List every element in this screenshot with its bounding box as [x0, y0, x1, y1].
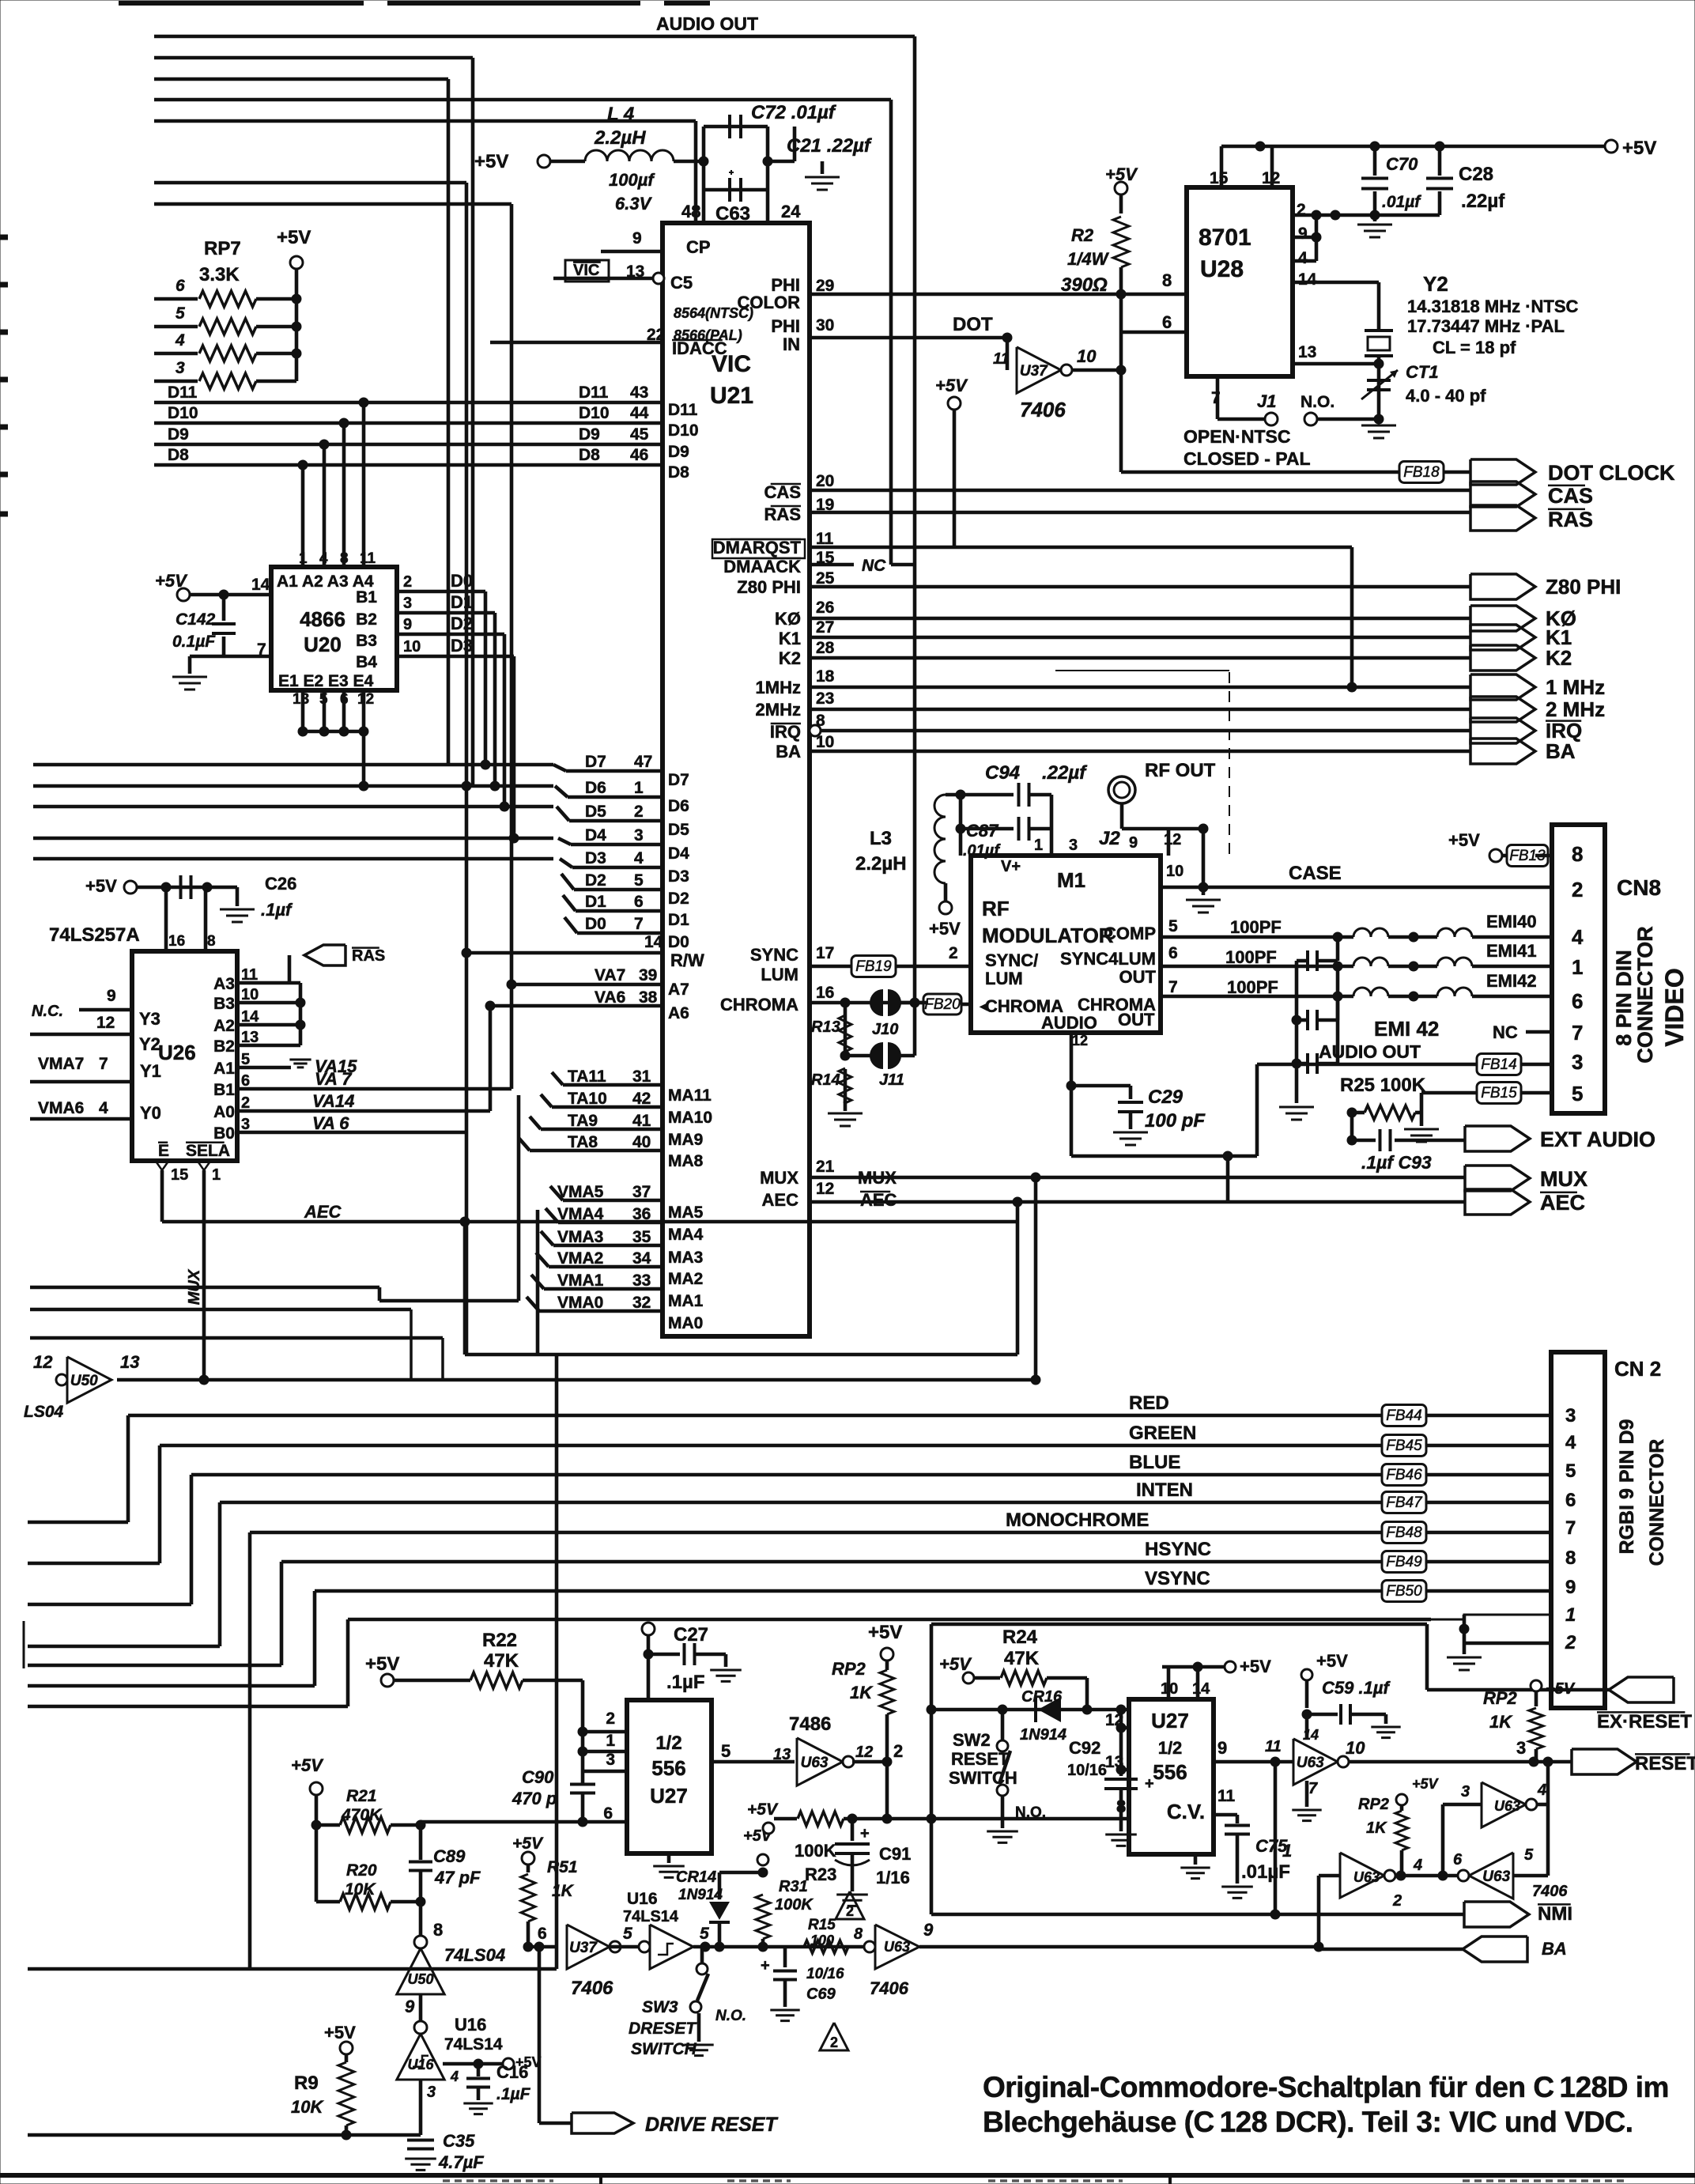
svg-text:9: 9 [107, 987, 116, 1005]
svg-text:2MHz: 2MHz [756, 700, 801, 720]
svg-text:R31: R31 [779, 1878, 808, 1895]
svg-text:VMA0: VMA0 [557, 1294, 603, 1312]
svg-text:C27: C27 [674, 1624, 708, 1646]
svg-text:C89: C89 [433, 1846, 466, 1866]
svg-text:FB18: FB18 [1403, 464, 1440, 481]
svg-text:7406: 7406 [1532, 1883, 1568, 1900]
svg-text:R21: R21 [346, 1787, 377, 1805]
svg-text:FB46: FB46 [1386, 1467, 1422, 1483]
svg-text:4: 4 [1298, 249, 1308, 267]
svg-text:1/16: 1/16 [876, 1868, 910, 1887]
svg-text:D10: D10 [668, 421, 699, 440]
svg-text:8 PIN DIN: 8 PIN DIN [1612, 950, 1636, 1046]
svg-text:MA8: MA8 [668, 1152, 704, 1170]
svg-text:AEC: AEC [1540, 1191, 1585, 1215]
svg-text:D7: D7 [585, 753, 606, 771]
svg-text:R20: R20 [346, 1861, 377, 1880]
svg-text:4: 4 [99, 1099, 108, 1117]
svg-text:21: 21 [816, 1158, 835, 1176]
svg-text:.1µF: .1µF [666, 1672, 705, 1693]
svg-text:29: 29 [816, 277, 834, 295]
svg-text:A2: A2 [213, 1017, 235, 1035]
svg-text:7: 7 [1565, 1517, 1576, 1539]
svg-text:9: 9 [405, 1997, 415, 2016]
svg-text:MUX: MUX [760, 1168, 798, 1188]
svg-text:9: 9 [1565, 1577, 1576, 1598]
svg-text:2: 2 [403, 573, 412, 591]
svg-text:1/2: 1/2 [1158, 1738, 1183, 1758]
svg-text:.22µf: .22µf [1042, 762, 1087, 784]
svg-text:Y3: Y3 [139, 1009, 160, 1029]
svg-text:6: 6 [176, 277, 185, 295]
svg-text:2: 2 [1565, 1632, 1576, 1653]
svg-text:C35: C35 [443, 2131, 475, 2151]
svg-text:100K: 100K [795, 1841, 836, 1861]
svg-text:FB45: FB45 [1386, 1438, 1422, 1454]
svg-text:AEC: AEC [762, 1190, 799, 1210]
svg-text:11: 11 [993, 350, 1010, 368]
svg-text:AEC: AEC [304, 1202, 342, 1222]
svg-text:V+: V+ [1001, 858, 1021, 875]
svg-text:14.31818 MHz ·NTSC: 14.31818 MHz ·NTSC [1407, 297, 1579, 316]
svg-text:13: 13 [773, 1746, 791, 1763]
svg-text:DMAACK: DMAACK [723, 557, 801, 576]
svg-text:3: 3 [1516, 1738, 1526, 1758]
svg-text:3: 3 [403, 595, 412, 612]
svg-text:1K: 1K [552, 1882, 575, 1900]
svg-text:10: 10 [1166, 863, 1183, 880]
svg-text:1: 1 [212, 1166, 221, 1184]
svg-text:100PF: 100PF [1225, 947, 1277, 967]
svg-text:MUX: MUX [1540, 1167, 1587, 1191]
svg-text:28: 28 [816, 639, 835, 657]
svg-text:RAS: RAS [764, 504, 801, 524]
svg-text:RGBI 9 PIN D9: RGBI 9 PIN D9 [1616, 1419, 1638, 1555]
svg-text:J1: J1 [1257, 391, 1276, 411]
svg-text:VIDEO: VIDEO [1660, 968, 1689, 1047]
svg-text:3: 3 [1069, 837, 1078, 854]
svg-text:VMA1: VMA1 [557, 1271, 604, 1290]
svg-text:+5V: +5V [868, 1622, 902, 1643]
svg-text:12: 12 [33, 1352, 53, 1372]
svg-text:DOT: DOT [953, 314, 993, 335]
svg-text:FB47: FB47 [1386, 1494, 1423, 1511]
svg-text:3: 3 [634, 826, 644, 845]
svg-text:KØ: KØ [775, 609, 801, 629]
svg-text:26: 26 [816, 599, 834, 617]
svg-text:R23: R23 [805, 1865, 836, 1884]
svg-text:7486: 7486 [789, 1714, 831, 1735]
svg-text:D3: D3 [585, 849, 606, 867]
svg-text:2 MHz: 2 MHz [1546, 697, 1605, 721]
svg-text:38: 38 [639, 988, 658, 1007]
svg-text:D10: D10 [168, 404, 198, 422]
svg-text:SYNC: SYNC [750, 945, 798, 965]
svg-text:MONOCHROME: MONOCHROME [1006, 1510, 1149, 1531]
svg-text:D3: D3 [451, 636, 473, 656]
svg-text:10/16: 10/16 [806, 1966, 844, 1982]
svg-text:1: 1 [1565, 1604, 1576, 1626]
svg-text:U20: U20 [304, 633, 342, 656]
svg-text:C29: C29 [1148, 1086, 1183, 1108]
svg-text:U21: U21 [710, 383, 753, 409]
svg-text:100PF: 100PF [1227, 977, 1278, 997]
svg-text:U16: U16 [455, 2015, 486, 2035]
svg-text:+5V: +5V [929, 919, 961, 939]
svg-text:4: 4 [319, 550, 328, 567]
svg-text:EMI41: EMI41 [1486, 941, 1537, 961]
svg-text:4: 4 [450, 2069, 459, 2084]
svg-text:R9: R9 [294, 2073, 319, 2094]
svg-text:RAS: RAS [352, 947, 385, 965]
svg-text:OPEN·NTSC: OPEN·NTSC [1183, 426, 1290, 447]
svg-text:DRIVE RESET: DRIVE RESET [645, 2114, 779, 2136]
svg-text:FB19: FB19 [855, 958, 892, 975]
svg-text:556: 556 [651, 1756, 685, 1780]
svg-text:RF: RF [982, 897, 1010, 920]
svg-text:.1µF: .1µF [496, 2085, 531, 2103]
svg-text:B3: B3 [356, 632, 377, 650]
svg-text:FB14: FB14 [1481, 1056, 1516, 1073]
svg-text:SW3: SW3 [642, 1998, 678, 2016]
svg-text:CHROMA: CHROMA [720, 995, 798, 1015]
svg-text:2: 2 [1392, 1892, 1402, 1910]
svg-text:12: 12 [96, 1014, 115, 1032]
svg-text:2.2µH: 2.2µH [594, 127, 646, 149]
svg-text:TA8: TA8 [568, 1133, 598, 1151]
svg-text:R/W: R/W [670, 950, 704, 970]
svg-text:4866: 4866 [300, 607, 345, 631]
svg-text:Y0: Y0 [140, 1103, 161, 1123]
svg-text:11: 11 [1265, 1738, 1282, 1755]
svg-text:25: 25 [816, 569, 835, 588]
svg-text:3.3K: 3.3K [199, 264, 240, 285]
svg-text:C5: C5 [670, 273, 693, 293]
svg-text:U27: U27 [1151, 1709, 1189, 1732]
svg-text:U37: U37 [1020, 363, 1048, 380]
svg-text:6: 6 [1162, 312, 1172, 332]
svg-text:N.C.: N.C. [32, 1003, 63, 1020]
svg-text:470K: 470K [341, 1806, 383, 1824]
svg-text:14: 14 [1298, 270, 1317, 289]
svg-text:A7: A7 [668, 981, 689, 999]
svg-text:14: 14 [1192, 1680, 1210, 1698]
svg-text:MA4: MA4 [668, 1226, 704, 1244]
svg-text:U26: U26 [158, 1041, 196, 1064]
svg-text:5: 5 [1565, 1460, 1576, 1482]
svg-text:+5V: +5V [1546, 1680, 1576, 1698]
svg-text:D11: D11 [579, 384, 609, 402]
svg-text:12: 12 [816, 1180, 834, 1198]
svg-text:Blechgehäuse (C 128 DCR). Teil: Blechgehäuse (C 128 DCR). Teil 3: VIC un… [983, 2106, 1633, 2138]
svg-text:+5V: +5V [155, 571, 188, 591]
svg-text:9: 9 [403, 616, 412, 633]
svg-text:U50: U50 [70, 1373, 98, 1389]
svg-text:U16: U16 [407, 2057, 434, 2073]
svg-text:3: 3 [1461, 1783, 1470, 1800]
svg-text:VA 7: VA 7 [315, 1069, 353, 1089]
svg-text:46: 46 [630, 446, 648, 464]
svg-text:8: 8 [1116, 1797, 1126, 1816]
svg-text:HSYNC: HSYNC [1145, 1539, 1211, 1560]
svg-text:D7: D7 [668, 771, 689, 789]
svg-text:13: 13 [293, 691, 309, 708]
svg-text:L3: L3 [870, 828, 892, 849]
svg-text:FB50: FB50 [1386, 1583, 1422, 1600]
svg-text:A1: A1 [213, 1060, 235, 1078]
svg-text:MODULATOR: MODULATOR [982, 924, 1114, 947]
svg-text:8: 8 [433, 1920, 443, 1940]
svg-text:BA: BA [1542, 1939, 1567, 1959]
svg-text:27: 27 [816, 618, 834, 637]
svg-text:.01µF: .01µF [1241, 1861, 1290, 1883]
svg-text:R22: R22 [482, 1630, 517, 1651]
svg-text:+5V: +5V [85, 876, 117, 896]
svg-text:SWITCH: SWITCH [631, 2040, 697, 2058]
svg-text:R24: R24 [1002, 1627, 1038, 1648]
svg-text:TA9: TA9 [568, 1112, 598, 1130]
svg-text:C16: C16 [496, 2062, 528, 2082]
svg-text:VMA7: VMA7 [38, 1055, 84, 1073]
svg-text:1K: 1K [850, 1683, 874, 1702]
svg-text:MA5: MA5 [668, 1203, 704, 1222]
svg-text:470 p: 470 p [512, 1789, 557, 1808]
svg-text:U63: U63 [1482, 1868, 1510, 1885]
svg-text:15: 15 [171, 1166, 188, 1184]
svg-text:11: 11 [360, 550, 376, 567]
svg-text:AEC: AEC [860, 1190, 897, 1210]
svg-text:CONNECTOR: CONNECTOR [1633, 926, 1657, 1064]
svg-text:N.O.: N.O. [715, 2008, 746, 2024]
svg-text:47K: 47K [1004, 1648, 1040, 1669]
svg-text:L 4: L 4 [607, 104, 634, 125]
svg-text:5: 5 [623, 1925, 632, 1943]
svg-text:J2: J2 [1099, 828, 1120, 849]
svg-text:13: 13 [120, 1352, 139, 1372]
svg-text:1: 1 [1034, 837, 1043, 854]
svg-text:6: 6 [1565, 1490, 1576, 1511]
svg-text:74LS14: 74LS14 [623, 1908, 679, 1925]
svg-text:C26: C26 [265, 874, 296, 894]
svg-text:+5V: +5V [935, 376, 968, 395]
svg-text:BA: BA [776, 742, 801, 761]
svg-text:D4: D4 [668, 845, 689, 863]
svg-text:10K: 10K [291, 2097, 324, 2117]
svg-text:C90: C90 [522, 1767, 554, 1787]
svg-text:+5V: +5V [291, 1755, 324, 1775]
svg-text:2: 2 [634, 803, 644, 821]
svg-text:R25 100K: R25 100K [1340, 1075, 1426, 1096]
svg-text:U37: U37 [569, 1940, 598, 1956]
svg-text:10: 10 [1077, 346, 1097, 366]
svg-text:7: 7 [1168, 978, 1178, 996]
svg-text:4: 4 [1565, 1432, 1576, 1453]
svg-text:40: 40 [632, 1133, 651, 1151]
svg-text:B1: B1 [213, 1081, 235, 1099]
svg-text:IN: IN [783, 334, 800, 354]
svg-text:74LS04: 74LS04 [444, 1945, 505, 1965]
svg-text:MA9: MA9 [668, 1131, 703, 1149]
svg-text:12: 12 [1164, 831, 1181, 848]
svg-text:5: 5 [1572, 1082, 1583, 1105]
svg-text:U28: U28 [1200, 256, 1244, 282]
svg-text:VMA2: VMA2 [557, 1249, 603, 1268]
svg-text:D11: D11 [668, 401, 698, 419]
svg-text:1N914: 1N914 [678, 1887, 723, 1903]
svg-text:20: 20 [816, 472, 834, 490]
svg-text:VA7: VA7 [595, 966, 625, 984]
svg-text:D5: D5 [668, 821, 689, 839]
svg-text:3: 3 [176, 359, 185, 377]
svg-text:B1: B1 [356, 588, 377, 606]
svg-text:OUT: OUT [1119, 967, 1157, 987]
svg-text:31: 31 [632, 1067, 651, 1086]
svg-text:MA11: MA11 [668, 1086, 712, 1105]
svg-text:8: 8 [1162, 270, 1172, 290]
svg-text:D1: D1 [451, 592, 473, 612]
svg-text:1: 1 [606, 1732, 615, 1750]
svg-text:EXT AUDIO: EXT AUDIO [1540, 1128, 1655, 1151]
svg-text:7406: 7406 [1020, 398, 1066, 421]
svg-text:10/16: 10/16 [1067, 1762, 1107, 1779]
svg-text:2.2µH: 2.2µH [855, 853, 907, 875]
svg-text:VSYNC: VSYNC [1145, 1568, 1210, 1589]
svg-text:5: 5 [1168, 917, 1178, 935]
svg-text:D9: D9 [579, 425, 600, 444]
svg-text:32: 32 [632, 1294, 651, 1312]
svg-text:9: 9 [1129, 834, 1138, 852]
svg-text:R2: R2 [1071, 225, 1094, 245]
svg-text:AUDIO OUT: AUDIO OUT [1319, 1041, 1421, 1062]
svg-text:44: 44 [630, 404, 649, 422]
svg-text:.1µf: .1µf [261, 900, 293, 920]
svg-text:U63: U63 [1494, 1798, 1520, 1814]
svg-text:12: 12 [1072, 1033, 1088, 1049]
svg-text:K2: K2 [1546, 646, 1572, 670]
svg-text:8: 8 [1565, 1547, 1576, 1569]
svg-text:4: 4 [175, 331, 185, 350]
svg-text:D2: D2 [668, 890, 689, 908]
svg-text:3: 3 [1565, 1405, 1576, 1426]
svg-text:CP: CP [686, 237, 711, 257]
svg-text:RAS: RAS [1548, 508, 1593, 531]
svg-text:37: 37 [632, 1183, 651, 1201]
svg-text:PHI: PHI [771, 316, 800, 336]
svg-text:33: 33 [632, 1271, 651, 1290]
svg-text:C21 .22µf: C21 .22µf [787, 135, 872, 157]
svg-text:100µf: 100µf [609, 170, 655, 190]
svg-text:+: + [761, 1957, 770, 1974]
svg-text:6: 6 [634, 893, 644, 911]
svg-text:C94: C94 [985, 762, 1020, 784]
svg-text:100K: 100K [775, 1896, 814, 1914]
svg-text:3: 3 [1572, 1050, 1583, 1074]
svg-text:B2: B2 [356, 610, 377, 629]
svg-text:VA6: VA6 [595, 988, 625, 1007]
svg-text:39: 39 [639, 966, 657, 984]
svg-text:9: 9 [632, 229, 642, 247]
svg-text:NMI: NMI [1538, 1903, 1572, 1925]
svg-text:1K: 1K [1489, 1712, 1513, 1732]
svg-text:C69: C69 [806, 1986, 836, 2003]
svg-text:VA14: VA14 [312, 1091, 354, 1111]
svg-text:EMI 42: EMI 42 [1374, 1017, 1439, 1041]
svg-text:CHROMA: CHROMA [985, 996, 1063, 1016]
svg-text:C142: C142 [176, 610, 216, 629]
svg-text:Y2: Y2 [1423, 272, 1448, 296]
svg-text:+5V: +5V [747, 1800, 779, 1819]
svg-text:C87: C87 [966, 821, 999, 841]
svg-text:NC: NC [1493, 1022, 1518, 1042]
svg-text:12: 12 [855, 1744, 873, 1761]
svg-text:23: 23 [816, 690, 834, 708]
svg-text:9: 9 [1217, 1738, 1227, 1758]
svg-text:LUM: LUM [761, 965, 798, 984]
svg-text:17.73447 MHz ·PAL: 17.73447 MHz ·PAL [1407, 316, 1565, 336]
svg-text:16: 16 [168, 933, 185, 950]
svg-text:4: 4 [1537, 1782, 1546, 1799]
svg-text:1K: 1K [1366, 1819, 1387, 1837]
svg-text:8701: 8701 [1199, 225, 1251, 251]
svg-text:SYNC4LUM: SYNC4LUM [1060, 949, 1156, 969]
svg-text:N.O.: N.O. [1015, 1804, 1046, 1821]
svg-text:.22µf: .22µf [1461, 191, 1505, 212]
svg-text:CASE: CASE [1289, 863, 1342, 884]
svg-text:100PF: 100PF [1230, 917, 1282, 937]
svg-text:+5V: +5V [277, 227, 311, 248]
svg-text:C28: C28 [1459, 164, 1493, 185]
svg-text:K1: K1 [779, 629, 801, 648]
svg-text:12: 12 [357, 691, 374, 708]
svg-text:4.0 - 40 pf: 4.0 - 40 pf [1406, 386, 1486, 406]
svg-text:4: 4 [634, 849, 644, 867]
svg-text:74LS257A: 74LS257A [49, 924, 140, 946]
svg-text:DRESET: DRESET [629, 2020, 697, 2038]
svg-text:D8: D8 [668, 463, 689, 482]
svg-text:+5V: +5V [1622, 138, 1656, 159]
svg-text:+5V: +5V [365, 1653, 399, 1675]
svg-text:7406: 7406 [870, 1978, 909, 1998]
svg-text:6: 6 [1453, 1851, 1463, 1868]
svg-text:D0: D0 [451, 571, 473, 591]
svg-text:8: 8 [340, 550, 349, 567]
svg-text:TA10: TA10 [568, 1090, 607, 1108]
svg-text:47 pF: 47 pF [434, 1868, 481, 1887]
svg-text:R51: R51 [547, 1858, 578, 1876]
svg-text:CAS: CAS [764, 482, 801, 502]
svg-text:VA 6: VA 6 [312, 1113, 349, 1133]
svg-text:17: 17 [816, 944, 834, 962]
svg-text:CAS: CAS [1548, 484, 1593, 508]
svg-text:8: 8 [1572, 842, 1583, 866]
svg-text:47: 47 [634, 753, 652, 771]
svg-text:0.1µF: 0.1µF [172, 633, 216, 651]
svg-text:13: 13 [1298, 343, 1316, 361]
svg-text:DOT CLOCK: DOT CLOCK [1548, 461, 1675, 485]
svg-text:47K: 47K [484, 1650, 519, 1672]
svg-text:VMA6: VMA6 [38, 1099, 84, 1117]
svg-text:+5V: +5V [474, 151, 508, 172]
svg-text:1: 1 [634, 779, 644, 797]
svg-text:LS04: LS04 [24, 1403, 64, 1421]
svg-text:C91: C91 [879, 1844, 911, 1864]
svg-text:D2: D2 [585, 871, 606, 890]
svg-text:+5V: +5V [1316, 1651, 1348, 1671]
svg-text:8566(PAL): 8566(PAL) [674, 327, 742, 343]
svg-text:LUM: LUM [985, 969, 1023, 988]
svg-text:RED: RED [1129, 1392, 1169, 1414]
svg-text:RF OUT: RF OUT [1145, 760, 1216, 781]
